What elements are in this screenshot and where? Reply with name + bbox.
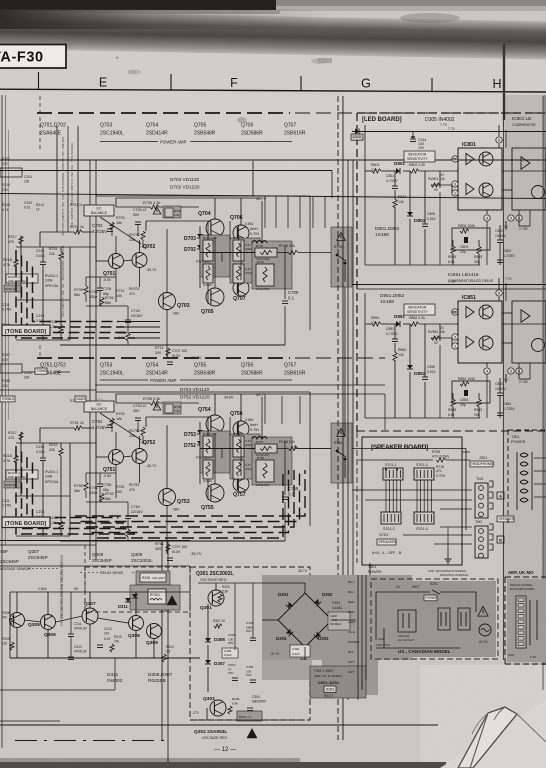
transistor Q751	[109, 450, 124, 465]
SPEAKER tag	[497, 516, 515, 522]
bottom-right folded page corner	[440, 700, 546, 768]
wires tone to amp input	[70, 246, 96, 248]
pin circle top 8	[496, 290, 502, 296]
verticals through parts band2	[39, 345, 41, 358]
LED section divider	[357, 288, 546, 290]
relay RY301 block	[130, 585, 180, 610]
IC801 transistor B	[479, 183, 493, 197]
bridge diode D303	[314, 632, 321, 639]
pot RV203-1 box	[6, 470, 38, 479]
IC851 opamp A	[466, 306, 474, 317]
vertical wires top area ch2	[264, 396, 266, 424]
stage vertical wires	[166, 229, 168, 293]
stage vertical wires	[166, 425, 168, 489]
transistor Q701	[109, 254, 124, 269]
pin circles bottom	[484, 368, 490, 374]
outlet box 3	[458, 608, 470, 630]
upper area extra pencil marks	[318, 58, 332, 63]
amp box outline	[96, 391, 310, 393]
transistor Q704	[206, 219, 224, 237]
speaker board solid border	[362, 437, 462, 565]
section top rail IC801	[352, 131, 546, 133]
transistor Q757	[233, 476, 249, 492]
pot RV203-1 box	[6, 274, 38, 283]
speaker horizontals to TM2	[440, 526, 472, 528]
pin circles left	[452, 309, 458, 315]
IC801 transistor A	[479, 152, 493, 166]
diagonal bias wire	[100, 413, 141, 440]
amp box outline	[96, 195, 310, 197]
outlet box 2	[438, 608, 450, 630]
parts list dashed rule y358	[37, 357, 290, 359]
bridge wires	[304, 583, 306, 593]
capacitor C314 IC801 section	[410, 139, 416, 142]
AEP UK E MODEL tag	[328, 612, 350, 630]
INDICATOR SENSITIVITY box	[404, 151, 435, 162]
comparator right box	[512, 148, 546, 210]
resistor R707 100 boxed	[255, 248, 277, 257]
TREBLE small box ch2	[0, 396, 15, 402]
wires AEP box	[529, 600, 531, 645]
pin circle top 8	[496, 137, 502, 143]
nested loop ch2 bottom corners	[75, 470, 305, 516]
T301 transformer top right box	[508, 429, 546, 431]
transistor Q756	[233, 421, 249, 437]
bridge diode D301	[286, 602, 293, 609]
section wires	[365, 170, 372, 172]
feedback wire from output	[284, 441, 286, 449]
speaker board internal wires	[385, 480, 387, 512]
AEP connector strip	[516, 596, 526, 648]
stage bottom rail	[60, 344, 285, 346]
power amp rule label 75x	[100, 379, 148, 381]
transistor Q305	[10, 613, 25, 628]
stage bottom rail	[60, 540, 285, 542]
relay contact block RY301	[331, 423, 352, 483]
bridge diode D304	[286, 629, 293, 636]
transistor Q705	[206, 288, 224, 306]
power amp rule label 7	[100, 141, 158, 143]
output to relay wires lower	[352, 448, 466, 450]
TM2 bracket icons	[489, 524, 493, 530]
transistor Q706	[233, 225, 249, 241]
035 D305 vertical	[364, 125, 366, 140]
TONE small box ch2	[35, 368, 47, 374]
transistor Q308	[129, 616, 144, 631]
resistor R715 0.47 boxed	[233, 264, 244, 283]
wires tone to amp input	[70, 442, 96, 444]
speaker feed wires	[352, 489, 365, 491]
resistor R716 100 boxed	[256, 264, 274, 286]
nested feedback loop corners	[16, 446, 135, 534]
transistor Q707	[233, 280, 249, 296]
gray tag R709	[163, 402, 181, 414]
resistor R765 0.47 boxed	[233, 460, 244, 479]
rule under parts band1	[0, 159, 546, 161]
right page border vertical	[542, 96, 544, 690]
transistor Q754	[206, 415, 224, 433]
connector S701-2	[381, 512, 401, 524]
resistor R766 100 boxed	[256, 460, 274, 482]
long horizontal y566-570	[0, 565, 190, 567]
transistor Q755	[206, 484, 224, 502]
bottom left rail y690	[0, 689, 115, 691]
transistor Q752	[132, 449, 147, 464]
TONE BOARD label box ch2	[2, 517, 50, 528]
gray tag R215 1k	[4, 481, 21, 488]
warning triangle US box	[478, 607, 488, 617]
model label box TA-F30	[0, 45, 66, 69]
TM1 bracket icons	[489, 481, 493, 487]
transistor Q703	[159, 293, 176, 310]
rule y385 partial	[95, 384, 385, 386]
grid header line	[0, 89, 546, 92]
resistor R762 220 boxed	[203, 436, 213, 457]
TONE BOARD label box ch1	[2, 325, 50, 336]
wire from speaker board down	[369, 563, 371, 575]
AEP UK model box right	[505, 576, 546, 578]
transistor Q702	[132, 253, 147, 268]
warning triangle bottom	[247, 729, 257, 738]
ch2 lower rails	[60, 540, 285, 542]
dc balance box ch2	[84, 401, 114, 412]
IC851 transistor A	[479, 305, 493, 319]
nested feedback loop corners	[16, 250, 135, 338]
R332 4.7 tag	[237, 711, 262, 721]
comparator right box	[512, 301, 546, 363]
bridge rectifier diamond	[278, 593, 332, 647]
resistor R712 220 boxed	[203, 240, 213, 261]
voltage reg wires	[215, 583, 217, 590]
input pair wires	[123, 260, 132, 261]
pin circles left	[452, 156, 458, 162]
top rail	[116, 393, 262, 395]
crease dash-dot line	[15, 740, 170, 742]
R804 100k box	[452, 228, 490, 250]
LED board dashed border	[357, 112, 546, 114]
relay contact block RY301	[331, 227, 352, 287]
IC801 opamp A	[466, 153, 474, 164]
big gray patch power area	[262, 575, 412, 660]
speaker gnd symbol	[445, 556, 452, 563]
vertical wires top area ch1	[264, 196, 266, 228]
verticals under rule	[89, 160, 91, 560]
B marker box	[497, 536, 504, 543]
protection wires	[10, 591, 190, 593]
extra ch2 output c758 to bus	[294, 445, 296, 449]
connector S701-4	[414, 512, 434, 524]
top scan black bar	[0, 0, 280, 10]
resistor R757 100 boxed	[255, 444, 277, 453]
emitter vertical wires	[207, 417, 209, 436]
T301 lead wires	[534, 457, 546, 459]
speaker horizontals to TM1	[365, 489, 472, 491]
LED board dashed bottom border	[357, 430, 546, 432]
input pair wires	[123, 456, 132, 457]
resistor R713 220 boxed	[203, 264, 213, 283]
rule y197	[0, 194, 546, 199]
pin circles bottom	[484, 215, 490, 221]
US box wires	[376, 591, 430, 593]
RELAY DRIVE label	[80, 572, 98, 574]
INDICATOR SENSITIVITY box	[404, 304, 435, 315]
gray highlight emitter resistor blocks	[200, 235, 230, 277]
C803 10p	[464, 390, 468, 396]
ch1 nested corner horizontals going right	[135, 337, 160, 339]
led board inner verticals extra	[439, 192, 441, 265]
BASS small box ch2	[75, 396, 86, 402]
emitter resistor wires to output	[221, 449, 223, 459]
Q301 voltage reg dashed box	[190, 567, 310, 720]
grid ticks	[38, 72, 40, 90]
bridge diode D302	[314, 599, 321, 606]
light gap under top bar	[0, 10, 280, 14]
feedback wire from output	[284, 245, 286, 253]
gray highlight emitter resistor blocks	[200, 431, 230, 473]
gray tag R215 1k	[4, 285, 21, 292]
C302 0.022 tag	[290, 645, 310, 657]
emitter vertical wires	[207, 221, 209, 240]
mid horizontal lines left ch2 partlist	[0, 389, 96, 391]
transistor Q302	[210, 700, 226, 716]
diode D310	[132, 594, 138, 598]
R804 100k box	[452, 381, 490, 403]
transistor Q307	[82, 608, 98, 624]
dashed verticals left	[39, 96, 41, 152]
bottom scan edge	[0, 762, 446, 768]
C308 tag box	[222, 648, 238, 658]
dc balance box ch1	[84, 205, 114, 216]
T301 coil windings	[520, 453, 528, 457]
paper grain	[0, 0, 1, 1]
bias top wires	[146, 416, 211, 418]
bus vertical x162-170 lower	[161, 540, 163, 740]
extra vertical wires amp	[85, 277, 87, 286]
resistor R764 0.47 boxed	[233, 436, 244, 457]
transformer verticals	[357, 575, 359, 700]
US Canadian model dashed box	[371, 579, 498, 659]
tone wires	[20, 236, 22, 247]
top rail	[116, 197, 262, 199]
transistor Q753	[159, 489, 176, 506]
IC box IC801	[458, 148, 502, 210]
transistor Q306	[41, 615, 56, 630]
tone wires	[20, 432, 22, 443]
R348 gray tag	[136, 571, 170, 585]
bias top wires	[146, 220, 211, 222]
mid horizontals ch2 to speaker	[344, 287, 346, 435]
heavy vertical line at H	[503, 44, 505, 120]
AC IN symbol	[479, 624, 491, 636]
section top rail IC851	[352, 284, 546, 286]
gray tag R709	[163, 206, 181, 218]
protection box dashed	[85, 567, 190, 612]
IC801 opamp B	[466, 183, 474, 194]
long horizontal w540	[0, 540, 190, 542]
resistor R763 220 boxed	[203, 460, 213, 479]
bus verticals between amp and LED board	[337, 96, 339, 740]
diagonal bias wire	[100, 217, 141, 244]
IC851 opamp B	[466, 336, 474, 347]
F301 gray fuse label box	[310, 666, 366, 698]
left page edge lines	[1, 95, 3, 748]
IC851 transistor B	[479, 336, 493, 350]
extra vertical wires amp	[85, 473, 87, 482]
IC box IC851	[458, 301, 502, 363]
scan smudges	[237, 117, 247, 123]
emitter resistor wires to output	[221, 253, 223, 263]
D305 tag box	[351, 134, 363, 140]
transistor Q309	[147, 624, 162, 639]
transistor Q301	[208, 590, 224, 606]
horizontal bus y437 output ch2	[295, 448, 331, 450]
parts list dashed rule y113	[37, 112, 290, 114]
CN AC outlet box	[398, 610, 416, 632]
A marker box	[497, 492, 504, 499]
section wires	[365, 323, 372, 325]
headphone feed wires	[358, 459, 433, 461]
C803 10p	[464, 237, 468, 243]
resistor R714 0.47 boxed	[233, 240, 244, 261]
bottom long rails	[0, 724, 438, 726]
warning triangle relay	[167, 596, 177, 605]
